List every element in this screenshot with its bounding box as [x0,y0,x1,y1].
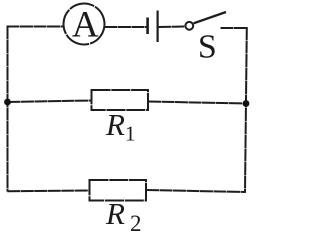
wire: ammeter to battery [105,26,147,28]
resistor R1 [92,90,149,110]
battery B1 long plate [157,11,159,43]
wire: R2 to bottom-right corner [146,190,246,192]
wire: battery to switch [159,26,185,29]
wire: top-left to ammeter [7,26,64,28]
battery B1 short plate [146,18,149,35]
resistor R2 [90,180,147,201]
svg-text:A: A [72,5,99,46]
svg-text:R: R [105,196,125,231]
ammeter U1 [64,4,105,45]
svg-text:R: R [105,107,125,142]
wire: bottom-left to R2 [7,190,90,193]
svg-text:1: 1 [125,122,136,146]
svg-text:S: S [198,28,217,65]
switch S arm [194,12,226,23]
node: right junction dot [243,100,250,107]
switch S pivot circle [185,22,193,30]
wire: left junction to R1 [8,101,93,103]
wire: left vertical [7,27,9,192]
svg-text:2: 2 [130,211,142,235]
wire: right vertical [245,27,247,193]
wire: switch to top-right corner [221,27,248,29]
node: left junction dot [4,99,11,106]
wire: R1 to right junction [148,102,246,104]
